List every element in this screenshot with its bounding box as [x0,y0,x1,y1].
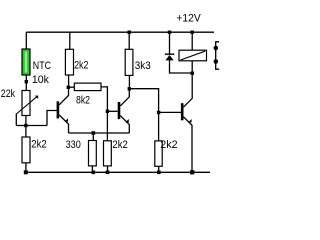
wire ground rail [26,171,210,173]
node ground 2k2 mid [106,171,110,175]
resistor 330 [89,141,97,166]
wire 2k2 to ground rail [25,163,27,173]
node ground 330 [92,171,96,175]
svg-text:2k2: 2k2 [112,139,127,151]
wire 330 bottom stub [91,166,93,172]
wire pot bottom horizontal [16,125,47,127]
svg-text:2k2: 2k2 [31,138,46,150]
wire pot to Q1 base riser [47,111,57,126]
wire NTC bottom to pot [25,75,27,91]
transistor Q2 [118,89,130,133]
thermistor NTC 10k [22,49,30,75]
node junction 3k3/Q2 collector [128,87,131,90]
wire Q3 base [159,111,181,113]
wire junction to 8k2 [68,86,74,88]
wire pot bottom to 2k2 [25,116,27,138]
svg-text:330: 330 [66,139,81,151]
wire 3k3 bottom [128,75,130,88]
node junction 8k2/Q2 base [106,110,109,113]
node dot top rail at relay [191,31,194,34]
node pot bottom junction [24,124,27,127]
svg-text:10k: 10k [32,74,49,86]
wire 8k2 right to Q2 base column [101,87,107,111]
wire pot wiper down [15,114,17,126]
svg-text:2k2: 2k2 [74,60,88,72]
wire Q3 base resistor drop [158,113,160,141]
relay contact terminals [214,42,220,69]
wire Q2 collector to Q3 base divider [129,89,158,113]
svg-text:22k: 22k [1,88,16,100]
resistor 2k2 bottom-left [22,137,30,163]
wire Q2 base [107,110,117,112]
wire 2k2 bottom to junction [68,75,70,87]
wire 330 top stub [92,133,94,141]
pot wiper arrow [16,96,38,114]
node junction 2k2/8k2/Q1 [67,86,70,89]
svg-text:NTC: NTC [33,60,51,72]
wire Q2 base resistor drop [106,111,108,141]
resistor 3k3 [125,49,133,75]
wire 2k2 top stub [69,32,71,49]
wire emitter rail Q1-Q2 [69,132,130,134]
wire relay top stub [191,32,193,50]
wire relay coil bottom [191,61,193,73]
transistor Q1 [57,87,69,133]
svg-text:+12V: +12V [176,13,201,25]
potentiometer 22k [16,91,38,116]
node junction diode/relay/Q3 [191,72,194,75]
resistor 2k2 right-bottom (Q3 base) [155,141,162,166]
node ground 2k2 right [157,171,161,175]
relay K1 coil [179,50,207,73]
wire diode bottom [170,60,193,73]
node junction NTC-pot [25,80,28,83]
wire NTC top stub [25,32,27,49]
wire 2k2 mid bottom stub [107,166,109,172]
wire diode top stub [169,32,171,53]
node dot top rail at 3k3 [128,31,131,34]
svg-text:3k3: 3k3 [135,60,151,72]
svg-text:2k2: 2k2 [160,139,177,151]
node dot top rail at diode [168,31,171,34]
svg-text:8k2: 8k2 [76,94,90,106]
node ground Q3 [190,170,194,174]
wire 2k2 right bottom stub [158,166,160,172]
node ground left [24,170,28,174]
diode D1 flyback [165,54,192,73]
wire 3k3 top stub [128,32,130,49]
wire top +12V rail [26,31,214,33]
node junction Q3 base [157,111,160,114]
transistor Q3 [181,73,192,172]
node junction 330/emitter rail [92,131,96,135]
resistor 2k2 mid-bottom [104,141,112,166]
resistor 2k2 top (column 2) [65,49,73,75]
resistor 8k2 [74,83,101,91]
